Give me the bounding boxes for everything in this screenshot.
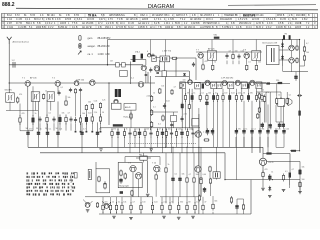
svg-text:T 3 B: T 3 B	[117, 19, 123, 21]
wire elco stubs3	[276, 135, 284, 147]
svg-text:61: 61	[59, 15, 62, 17]
resistor R57	[98, 176, 100, 183]
svg-text:4 K: 4 K	[40, 15, 44, 17]
svg-text:470: 470	[238, 129, 241, 131]
switch rect	[74, 173, 77, 178]
svg-text:4: 4	[2, 25, 4, 29]
wire elco stubs	[236, 135, 252, 179]
svg-text:1k: 1k	[153, 92, 155, 94]
capacitor C44	[170, 130, 173, 138]
capacitor C9	[57, 91, 60, 96]
svg-text:4: 4	[54, 23, 56, 25]
resistor R58	[96, 202, 98, 208]
electrolytic C62	[268, 174, 271, 181]
svg-text:1 M 4: 1 M 4	[164, 23, 171, 25]
wire fm left drop	[130, 62, 132, 85]
svg-text:1k: 1k	[112, 202, 114, 204]
wire misc3	[47, 124, 49, 130]
svg-text:OL.D: OL.D	[268, 162, 274, 164]
transistor T9	[188, 80, 193, 85]
resistor R75	[140, 202, 142, 213]
legend text UKW	[88, 37, 112, 40]
wire am r2 drops	[20, 123, 101, 130]
svg-text:470: 470	[104, 202, 107, 204]
transistor T5b AM	[74, 81, 79, 86]
transistor T12	[235, 80, 240, 85]
resistor R3	[17, 97, 19, 104]
svg-text:1: 1	[218, 15, 220, 17]
transistor T11	[222, 80, 227, 85]
wire misc2	[38, 101, 40, 129]
transistor T3 AM	[25, 81, 31, 87]
transistor T25	[195, 166, 201, 172]
capacitor C36	[128, 130, 131, 138]
wire misc6	[97, 122, 99, 129]
svg-text:R 7 B: R 7 B	[16, 23, 22, 25]
svg-text:0,1: 0,1	[285, 171, 288, 173]
svg-text:81 B: 81 B	[292, 19, 297, 21]
resistor R32	[216, 93, 218, 102]
wire hang bus	[100, 127, 200, 129]
svg-text:4: 4	[314, 25, 316, 29]
svg-text:4,7: 4,7	[132, 202, 135, 204]
electrolytic C30	[56, 128, 60, 138]
svg-text:10k: 10k	[146, 129, 149, 131]
wire fm h57	[155, 57, 160, 59]
svg-text:2: 2	[250, 23, 252, 25]
resistor R64	[193, 177, 195, 184]
svg-text:3: 3	[314, 21, 316, 25]
transistor T6	[114, 99, 118, 103]
transistor T26 AD166	[259, 158, 273, 165]
svg-text:4: 4	[164, 19, 166, 21]
resistor R83	[212, 203, 214, 211]
svg-text:3 B: 3 B	[98, 27, 102, 29]
box AM-ZF	[124, 104, 136, 111]
parts table entries	[7, 14, 310, 29]
oscillator box bars	[162, 57, 166, 60]
wire diode col	[282, 40, 284, 67]
transistor T4 AM	[55, 81, 61, 87]
resistor R53	[286, 97, 289, 105]
svg-text:AF 106: AF 106	[30, 77, 37, 80]
svg-text:0,04: 0,04	[203, 174, 207, 176]
svg-text:2 B1: 2 B1	[46, 19, 51, 21]
svg-text:0,04: 0,04	[88, 112, 92, 114]
capacitor C43	[165, 129, 167, 138]
second row R17	[85, 115, 87, 125]
IF transformer Fi7	[211, 82, 217, 89]
wire misc9	[47, 138, 49, 148]
svg-text:T 7: T 7	[196, 49, 200, 51]
value labels botright	[265, 166, 305, 181]
svg-text:470: 470	[265, 169, 268, 171]
svg-text:47 2: 47 2	[98, 23, 103, 25]
legend symbol arrow	[78, 51, 81, 55]
resistor R20	[232, 54, 234, 60]
wire driver v	[198, 114, 200, 214]
capacitor C40	[149, 130, 152, 138]
wire fm mid h2	[155, 76, 189, 78]
svg-text:10 K B: 10 K B	[87, 19, 94, 21]
resistor R79	[178, 202, 180, 213]
svg-text:0,04: 0,04	[241, 50, 245, 52]
resistor R36	[241, 93, 243, 102]
battery 9V symbols	[283, 34, 291, 40]
label germanium	[262, 41, 277, 44]
svg-text:3 C21: 3 C21	[7, 27, 14, 29]
electrolytic C59	[171, 176, 174, 183]
svg-text:AA 112 2: AA 112 2	[138, 22, 148, 25]
wire antenna bus	[9, 64, 143, 66]
svg-text:T 10: T 10	[152, 162, 157, 164]
svg-text:10 4: 10 4	[120, 23, 125, 25]
svg-text:BF 194: BF 194	[47, 15, 55, 17]
resistor R24	[255, 64, 257, 71]
svg-text:4,7: 4,7	[269, 129, 272, 131]
svg-text:6 T2: 6 T2	[15, 15, 20, 17]
electrolytic C38	[138, 129, 141, 138]
diode D3	[281, 55, 284, 61]
trimmers tuning	[110, 60, 125, 67]
svg-text:RATIO 8: RATIO 8	[176, 14, 186, 17]
IF transformer Fi8	[216, 82, 222, 89]
resistor R48 dark	[298, 111, 300, 116]
voltage table text block	[27, 172, 76, 195]
diode D4	[266, 82, 270, 84]
svg-text:1 K 8: 1 K 8	[55, 19, 61, 21]
svg-text:1 ZF 460 kHz: 1 ZF 460 kHz	[221, 78, 233, 80]
resistor R6	[74, 88, 76, 94]
voltage table col	[71, 175, 73, 191]
svg-text:1 C4: 1 C4	[7, 19, 13, 21]
value labels audio mid	[158, 164, 206, 176]
resistor R27	[184, 93, 186, 102]
svg-text:0,1: 0,1	[49, 112, 52, 114]
wire am bus2	[20, 130, 33, 132]
resistor R63	[186, 177, 188, 184]
svg-text:33 K 4: 33 K 4	[206, 19, 213, 21]
svg-text:330: 330	[250, 93, 253, 95]
ground bus 2	[40, 152, 225, 154]
resistor R85 h dark	[266, 152, 271, 154]
parts table frame	[2, 13, 318, 28]
resistor R39	[261, 93, 263, 102]
box Fi5	[180, 82, 186, 89]
svg-text:1: 1	[104, 19, 106, 21]
capacitor C45	[175, 129, 177, 138]
svg-text:68: 68	[188, 202, 190, 204]
wire out bottom	[290, 185, 300, 191]
header rule top right	[228, 4, 316, 7]
resistor R80	[186, 202, 188, 213]
svg-text:470: 470	[205, 61, 208, 63]
wire am row2 bus	[6, 110, 38, 112]
svg-text:1k: 1k	[278, 94, 280, 96]
svg-text:56: 56	[171, 202, 173, 204]
svg-text:C 4 B: C 4 B	[16, 19, 22, 21]
svg-text:1k: 1k	[193, 93, 195, 95]
transistor T14	[131, 77, 144, 87]
svg-text:460 KHZ: 460 KHZ	[296, 15, 306, 17]
value labels topright	[261, 43, 309, 97]
svg-text:AC 151 B: AC 151 B	[82, 22, 92, 25]
wire fm v146b	[145, 71, 147, 83]
svg-text:8 B: 8 B	[177, 27, 181, 29]
transistor T22	[135, 173, 141, 179]
svg-text:4 B 2: 4 B 2	[302, 19, 308, 21]
svg-text:LAUTSPR. B: LAUTSPR. B	[200, 26, 214, 29]
wire fm right drop	[188, 71, 190, 83]
svg-text:AF 125: AF 125	[208, 47, 215, 50]
svg-text:B: B	[274, 19, 276, 21]
volume pot P1	[136, 154, 151, 160]
parts table cell rules	[44, 13, 306, 28]
wire bus drop 297	[296, 40, 298, 46]
wire mid col drops	[185, 101, 229, 148]
svg-text:0,1 B: 0,1 B	[72, 27, 78, 29]
svg-text:TREIBER B: TREIBER B	[224, 15, 237, 17]
wire out bus	[283, 71, 308, 73]
wire T26 gnd	[262, 179, 264, 188]
wire misc15	[251, 137, 253, 147]
resistor R44	[180, 84, 182, 88]
IF transformer Fi4	[252, 51, 261, 61]
svg-text:88-200: 88-200	[98, 45, 106, 48]
svg-text:0,1: 0,1	[158, 124, 162, 126]
label T1	[22, 77, 37, 80]
svg-text:4,7: 4,7	[189, 174, 192, 176]
ground gnd11	[177, 217, 181, 219]
svg-text:4,7: 4,7	[174, 86, 177, 88]
svg-text:1k: 1k	[45, 90, 47, 92]
svg-text:kHz: kHz	[106, 53, 111, 56]
svg-text:470: 470	[158, 171, 161, 173]
svg-text:2 K 2: 2 K 2	[266, 27, 272, 29]
wire if2 res drops	[185, 89, 256, 95]
svg-text:4: 4	[71, 182, 73, 184]
svg-text:2,2k: 2,2k	[147, 96, 151, 98]
ground gnd4	[191, 216, 195, 218]
resistor R66	[131, 190, 133, 197]
wire bus drop 150	[149, 40, 151, 57]
resistor R82	[202, 204, 204, 212]
svg-text:22 K B: 22 K B	[252, 19, 259, 21]
svg-text:470 B: 470 B	[65, 19, 72, 21]
interstage transformer	[213, 172, 220, 178]
svg-text:T 8: T 8	[128, 162, 132, 164]
svg-text:1k: 1k	[168, 164, 170, 166]
svg-text:0,04: 0,04	[166, 100, 170, 102]
svg-text:0,04: 0,04	[154, 202, 158, 204]
svg-text:Germanium 4 W: Germanium 4 W	[262, 41, 277, 44]
value labels IF1	[205, 50, 261, 63]
transistor T5 AM	[90, 80, 96, 86]
capacitor C63	[155, 67, 158, 72]
svg-text:56 B: 56 B	[175, 23, 180, 25]
svg-text:T 1: T 1	[22, 78, 26, 80]
value labels audio bottom	[104, 201, 217, 204]
transistor T7	[196, 49, 204, 58]
resistor R28	[191, 93, 193, 102]
label preamp	[119, 184, 129, 187]
svg-text:ca. 1: ca. 1	[88, 53, 94, 56]
resistor R51	[276, 97, 279, 105]
wire elco 237	[237, 199, 244, 214]
wire mid drop x109	[108, 83, 110, 125]
svg-text:5: 5	[186, 15, 188, 17]
resistor R86	[262, 171, 264, 179]
svg-text:100: 100	[82, 113, 85, 115]
driver transformer box	[266, 46, 279, 65]
second row C13	[52, 117, 55, 123]
svg-text:AF 126 B: AF 126 B	[190, 18, 200, 21]
svg-text:8,2 B: 8,2 B	[154, 23, 160, 25]
electrolytic C26	[282, 123, 285, 129]
svg-text:12 B: 12 B	[256, 23, 261, 25]
wire drop x165	[165, 77, 167, 148]
capacitor C57	[103, 181, 106, 187]
electrolytic C55	[274, 128, 277, 135]
preamp box	[118, 162, 142, 187]
trimmer C3	[152, 56, 156, 62]
wire mid h112	[150, 111, 178, 113]
resistor R77	[161, 202, 163, 213]
wire out top	[263, 153, 290, 155]
resistor R43	[150, 121, 152, 128]
svg-text:B 12: B 12	[7, 15, 12, 17]
svg-text:ausger.: ausger.	[88, 45, 96, 48]
svg-text:D 4 4: D 4 4	[246, 27, 252, 29]
label FM tuner	[137, 50, 172, 53]
svg-text:470: 470	[135, 51, 138, 53]
electrolytic C24	[269, 123, 272, 129]
svg-text:1,5 V 2: 1,5 V 2	[238, 19, 246, 21]
svg-text:81: 81	[24, 15, 27, 17]
svg-text:D 2 B: D 2 B	[280, 19, 286, 21]
svg-text:10k: 10k	[208, 93, 211, 95]
svg-text:4,7: 4,7	[159, 129, 162, 131]
wire v290	[289, 154, 291, 173]
svg-text:2,2k: 2,2k	[163, 202, 166, 204]
capacitor C66	[192, 62, 195, 67]
svg-text:56: 56	[102, 112, 104, 114]
transistor T13	[250, 80, 255, 85]
svg-text:0,1: 0,1	[118, 202, 121, 204]
svg-text:N 4 2: N 4 2	[128, 27, 134, 29]
svg-text:220 B: 220 B	[142, 19, 149, 21]
wire fm v176	[175, 58, 177, 77]
wire v300	[299, 180, 301, 192]
svg-text:B: B	[134, 15, 136, 17]
ground bus 1	[28, 146, 263, 148]
capacitor C16	[225, 53, 228, 59]
svg-text:56: 56	[243, 93, 245, 95]
svg-text:220: 220	[276, 80, 279, 82]
svg-text:4,7: 4,7	[306, 43, 309, 45]
resistor R68	[209, 166, 211, 173]
top supply bus	[108, 39, 301, 41]
svg-text:2,2k: 2,2k	[94, 112, 97, 114]
svg-text:2 B: 2 B	[289, 15, 293, 17]
value labels hanging2	[238, 129, 289, 131]
parts table bold entries	[88, 14, 256, 17]
resistor R95	[198, 195, 200, 202]
label ratio det	[124, 116, 133, 119]
resistor R65	[200, 177, 202, 184]
resistor R49 dark	[276, 80, 282, 84]
wire fm right edge	[195, 58, 197, 80]
svg-text:gem.: gem.	[88, 37, 94, 40]
svg-text:100: 100	[168, 129, 171, 131]
wire drop x189	[188, 89, 190, 128]
svg-text:4,7: 4,7	[83, 129, 86, 131]
component dark	[120, 191, 123, 194]
svg-text:2: 2	[148, 23, 150, 25]
svg-text:ZF-VERST. B: ZF-VERST. B	[152, 15, 166, 17]
wire fm top	[170, 57, 196, 59]
svg-text:4,7: 4,7	[68, 112, 71, 114]
AM bus	[9, 82, 155, 84]
node dots	[9, 39, 301, 180]
rail arrows	[297, 94, 302, 96]
svg-text:560 kHz: 560 kHz	[5, 90, 12, 92]
resistor R25 dark	[202, 83, 204, 88]
svg-text:C8: C8	[110, 60, 113, 62]
resistor R23	[246, 64, 248, 71]
bottom bus	[99, 213, 251, 215]
wire audio v147	[147, 161, 149, 193]
svg-text:POTENTIOM. 4: POTENTIOM. 4	[203, 23, 220, 25]
diode D2	[281, 42, 284, 48]
resistor R70	[102, 202, 104, 213]
resistor R88	[299, 169, 301, 175]
svg-text:L 307 T/4: L 307 T/4	[162, 50, 172, 52]
transistor T21	[128, 162, 136, 172]
svg-text:ABSTIMMUNG: ABSTIMMUNG	[109, 14, 125, 17]
svg-text:100: 100	[302, 179, 305, 181]
capacitor C20	[180, 116, 183, 122]
electrolytic C42	[161, 129, 164, 138]
svg-text:2,1: 2,1	[131, 77, 135, 79]
resistor R98	[230, 196, 232, 204]
svg-text:FOLGEN B: FOLGEN B	[220, 19, 232, 21]
chassis triangle 2	[150, 149, 153, 152]
svg-text:2: 2	[74, 19, 76, 21]
svg-text:888.2: 888.2	[2, 2, 15, 8]
resistor R60	[124, 173, 126, 180]
svg-text:5 OHM 2: 5 OHM 2	[222, 27, 232, 29]
svg-text:50: 50	[56, 128, 58, 130]
svg-text:4: 4	[147, 51, 149, 53]
resistor R100	[130, 110, 132, 128]
svg-text:470: 470	[19, 94, 22, 96]
wire misc1	[27, 86, 29, 129]
svg-text:2: 2	[200, 19, 202, 21]
svg-text:D 1 B: D 1 B	[128, 23, 134, 25]
svg-text:4,7: 4,7	[215, 93, 218, 95]
wire misc8	[38, 138, 40, 148]
second row C15	[74, 117, 77, 123]
svg-text:B: B	[116, 23, 118, 25]
resistor R9	[99, 102, 101, 109]
resistor R92	[296, 57, 298, 63]
svg-text:9 V 2: 9 V 2	[48, 27, 54, 29]
svg-text:2000 B: 2000 B	[36, 27, 44, 29]
wire if1 ups	[227, 61, 239, 65]
resistor R74	[130, 202, 132, 213]
svg-text:0,04 B: 0,04 B	[276, 27, 283, 29]
